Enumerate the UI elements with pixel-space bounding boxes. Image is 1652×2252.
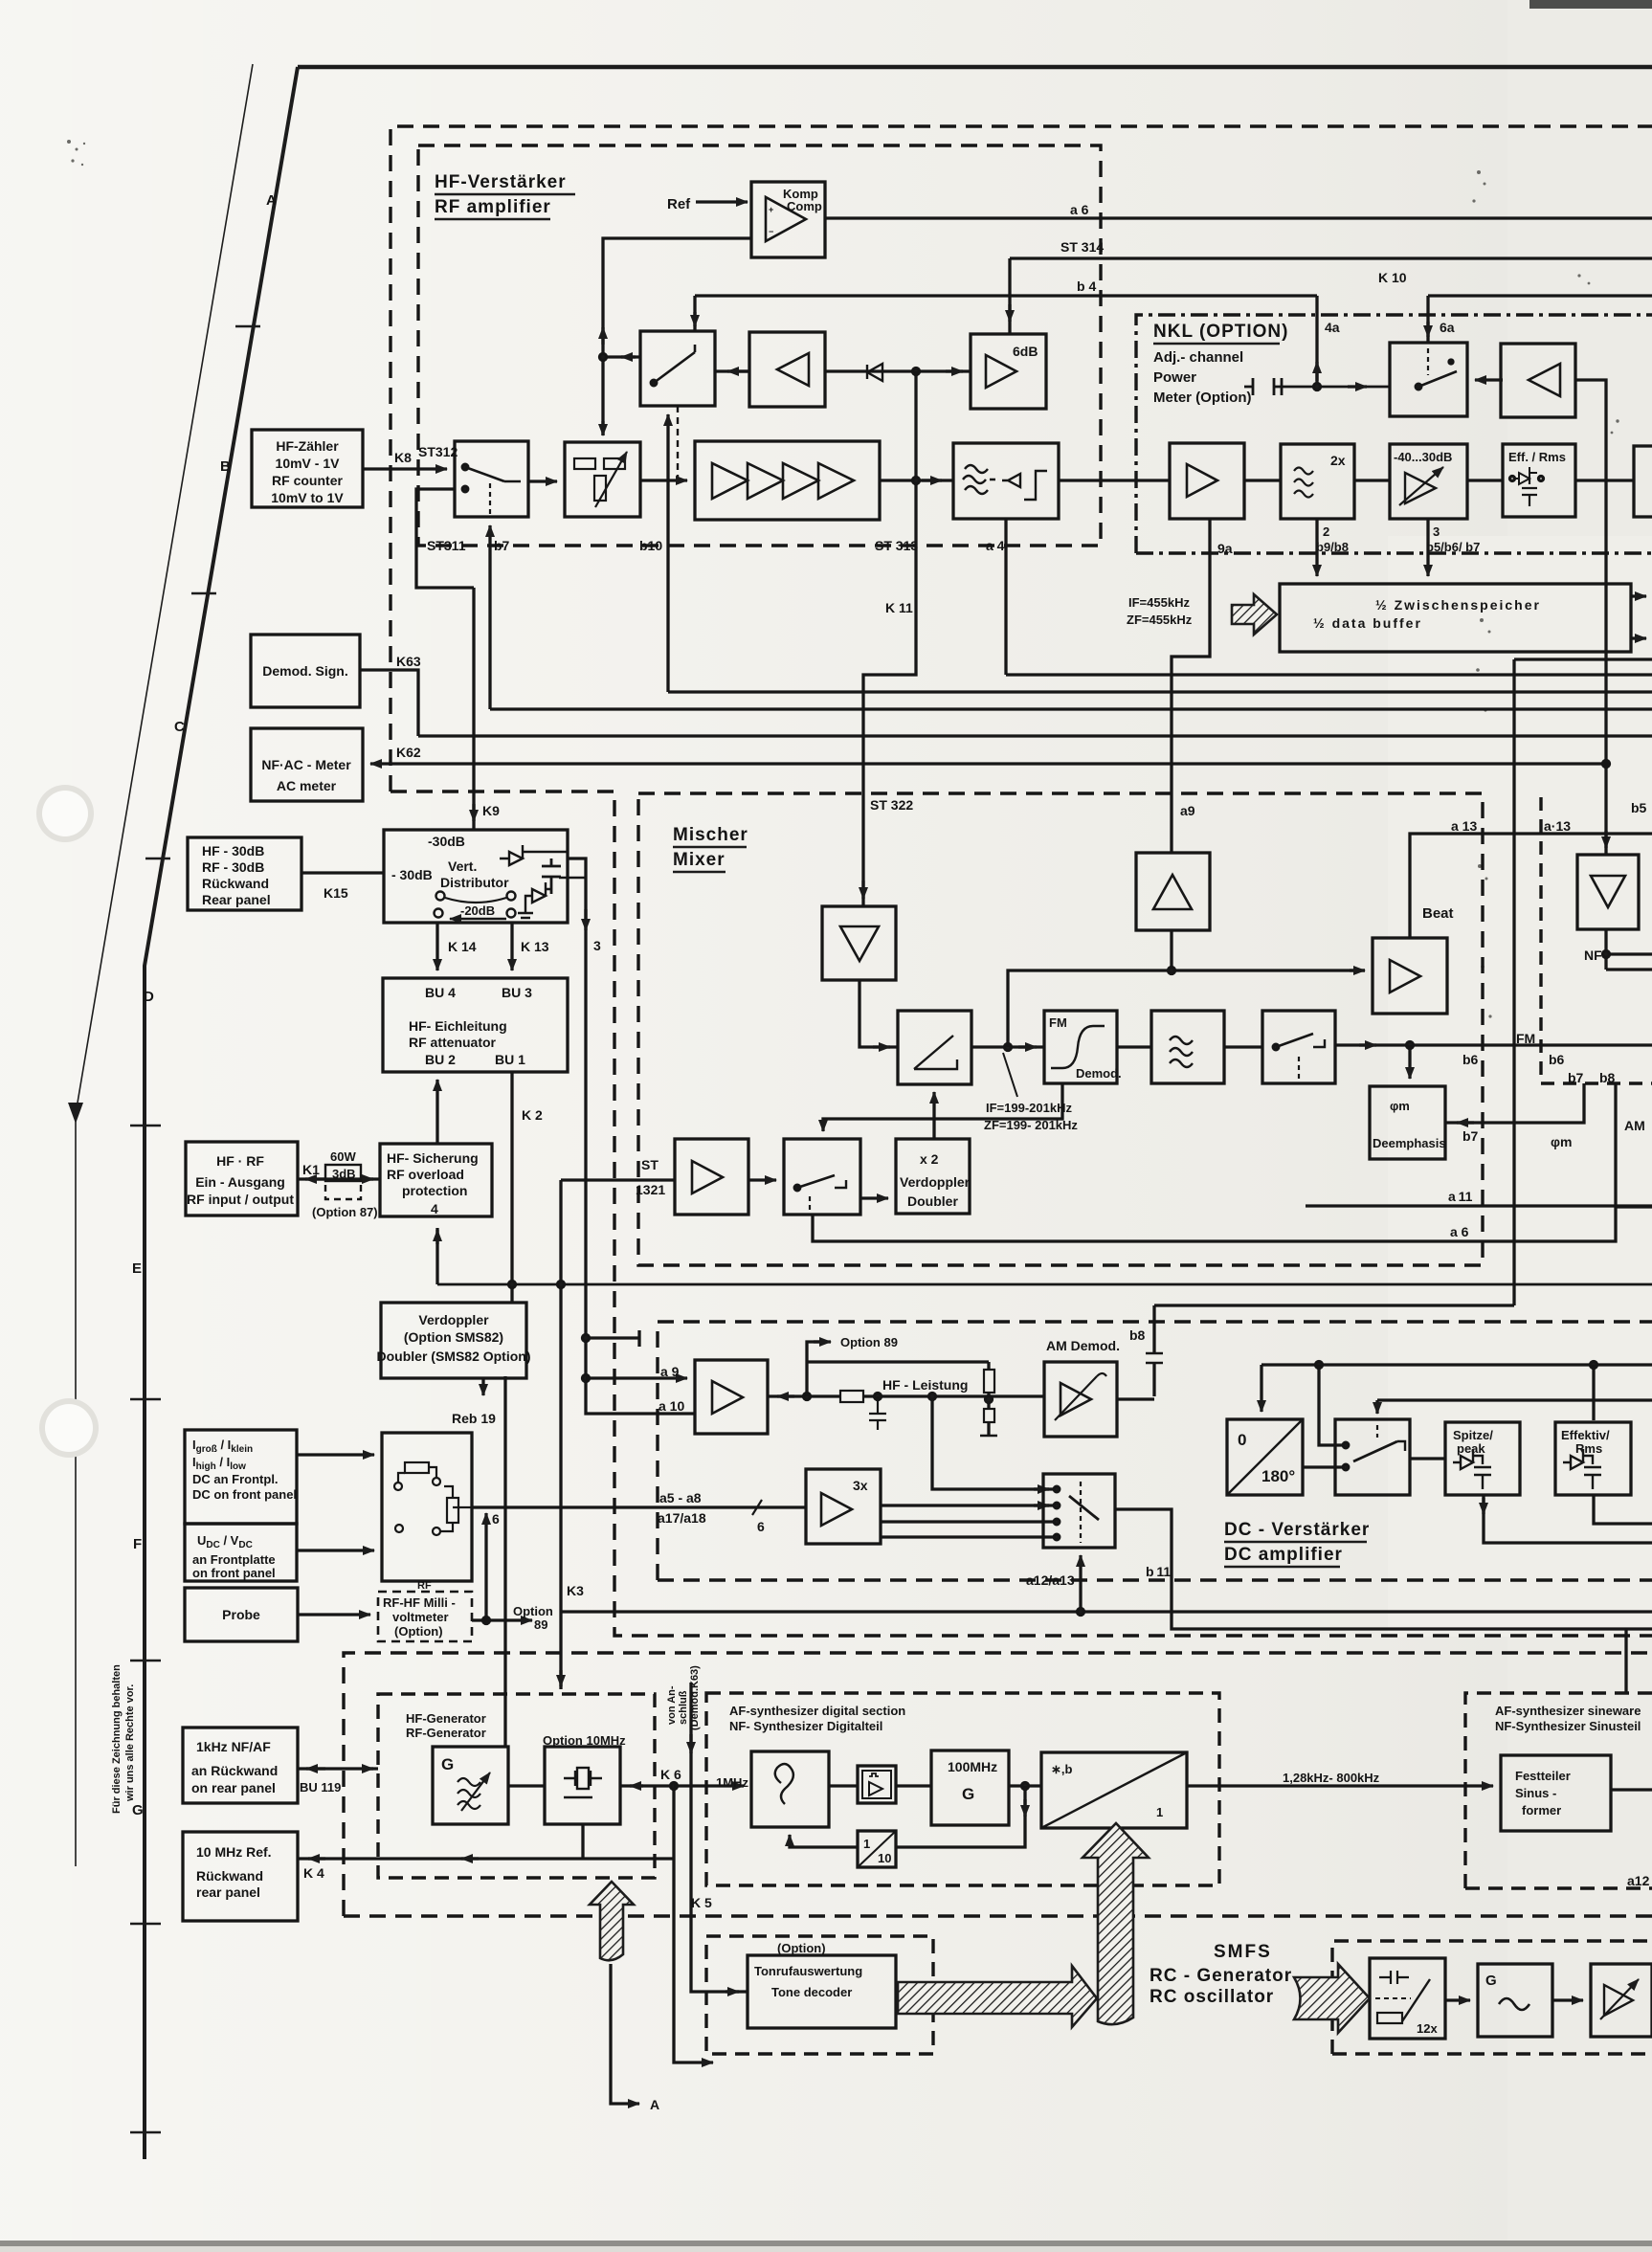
bus wire y723 bbox=[668, 690, 1652, 693]
buffer output arrows bbox=[1631, 596, 1646, 638]
wire right branch y689 bbox=[1514, 658, 1652, 660]
svg-text:Distributor: Distributor bbox=[440, 875, 509, 890]
arrow a12a13 up bbox=[1079, 1555, 1082, 1612]
bus wire y705 bbox=[1006, 673, 1652, 676]
svg-text:K1: K1 bbox=[302, 1162, 320, 1177]
junction divider input bbox=[1022, 1783, 1029, 1790]
text HF-Eichleitung bbox=[409, 1018, 507, 1050]
svg-text:former: former bbox=[1522, 1803, 1561, 1817]
arrow into FM box bbox=[1018, 1045, 1037, 1048]
svg-text:K8: K8 bbox=[394, 450, 412, 465]
title AF digital bbox=[729, 1704, 905, 1733]
3x amplifier box bbox=[806, 1469, 881, 1544]
svg-text:3: 3 bbox=[1433, 524, 1440, 539]
svg-text:RF counter: RF counter bbox=[272, 473, 343, 488]
wire deemphasis feed bbox=[1407, 1042, 1414, 1080]
svg-text:Spitze/: Spitze/ bbox=[1453, 1428, 1493, 1442]
svg-text:HF-Zähler: HF-Zähler bbox=[276, 438, 339, 454]
text 1kHz box bbox=[191, 1739, 278, 1795]
svg-text:Demod. Sign.: Demod. Sign. bbox=[262, 663, 347, 679]
DC-Verstaerker dashed box bbox=[658, 1322, 1652, 1580]
svg-text:(Option): (Option) bbox=[394, 1624, 443, 1639]
svg-text:a·13: a·13 bbox=[1544, 818, 1571, 834]
wire mischer divider to ramp bbox=[859, 980, 898, 1047]
switch box2 dashed drop bbox=[677, 406, 679, 480]
svg-text:BU 4: BU 4 bbox=[425, 985, 456, 1000]
junction HF-Leistung bbox=[929, 1394, 936, 1400]
wire a6 lower right bbox=[813, 1207, 1652, 1241]
svg-text:10: 10 bbox=[878, 1851, 891, 1865]
Effektiv rms detector box bbox=[1555, 1422, 1631, 1495]
arrow verdoppler Reb19 bbox=[481, 1378, 484, 1395]
svg-text:K 4: K 4 bbox=[303, 1865, 324, 1881]
svg-text:NF·AC - Meter: NF·AC - Meter bbox=[261, 757, 351, 772]
wire to beat amp bbox=[1008, 970, 1365, 1047]
wire a6 from comparator output bbox=[825, 216, 1652, 219]
UDC VDC box bbox=[185, 1524, 297, 1581]
wire b5 drop bbox=[1603, 761, 1610, 768]
svg-text:K 13: K 13 bbox=[521, 939, 549, 954]
svg-text:HF · RF: HF · RF bbox=[216, 1153, 264, 1169]
svg-text:DC on front panel: DC on front panel bbox=[192, 1487, 297, 1502]
svg-text:C: C bbox=[174, 719, 185, 735]
text HF-Generator bbox=[406, 1711, 486, 1740]
svg-text:on front panel: on front panel bbox=[192, 1566, 276, 1580]
svg-text:1kHz NF/AF: 1kHz NF/AF bbox=[196, 1739, 271, 1754]
wire K1 60W bbox=[298, 1177, 380, 1180]
page bottom edge shadow bbox=[0, 2241, 1652, 2246]
wire 9a jog from NKL amp bbox=[1172, 519, 1210, 853]
slash mark 6 bbox=[752, 1500, 762, 1515]
feedback switch box S2 bbox=[640, 331, 715, 406]
text Verdoppler SMS82 box bbox=[377, 1312, 531, 1364]
wire 4a drop to NKL bbox=[1315, 296, 1318, 387]
punch hole upper bbox=[36, 785, 94, 842]
svg-text:10mV - 1V: 10mV - 1V bbox=[276, 456, 341, 471]
svg-text:Rear panel: Rear panel bbox=[202, 892, 271, 907]
svg-text:ST: ST bbox=[641, 1157, 659, 1172]
HF-Leistung amp box a9 bbox=[695, 1360, 768, 1434]
svg-text:RF attenuator: RF attenuator bbox=[409, 1035, 497, 1050]
wire K14 bbox=[435, 923, 438, 970]
NKL amplifier box bbox=[1170, 443, 1244, 519]
arrow K9 into box bbox=[472, 804, 475, 821]
wire b4 K10 bbox=[695, 296, 1652, 331]
2x filter box bbox=[1281, 444, 1354, 519]
a b divider box bbox=[1041, 1752, 1187, 1828]
wire distributor out to 3 line bbox=[568, 858, 695, 1414]
svg-text:b9/b8: b9/b8 bbox=[1316, 540, 1349, 554]
svg-text:3x: 3x bbox=[853, 1478, 868, 1493]
junction a12a13 bbox=[1078, 1609, 1084, 1616]
svg-text:-40...30dB: -40...30dB bbox=[1394, 450, 1452, 464]
wire crystal to K6 bbox=[620, 1784, 674, 1787]
text Zwischenspeicher bbox=[1313, 597, 1541, 631]
arrow FM wire bbox=[1359, 1043, 1376, 1046]
Mischer input divider box bbox=[822, 906, 896, 980]
svg-text:DC an Frontpl.: DC an Frontpl. bbox=[192, 1472, 279, 1486]
junction ST313 on chain wire bbox=[913, 478, 920, 484]
svg-text:NKL (OPTION): NKL (OPTION) bbox=[1153, 322, 1288, 342]
junction K3 on 1342 bbox=[558, 1282, 565, 1288]
label FM demod IF bbox=[984, 1101, 1078, 1132]
wire switch to Spitze bbox=[1410, 1457, 1445, 1460]
svg-text:b7: b7 bbox=[494, 538, 510, 553]
row tick y897 bbox=[145, 858, 170, 860]
AM demodulator box bbox=[1044, 1362, 1117, 1437]
svg-text:0: 0 bbox=[1238, 1431, 1246, 1449]
scan speckles bbox=[67, 140, 1619, 1047]
text RF voltmeter box bbox=[383, 1580, 456, 1639]
arrowhead into 4 bbox=[435, 1230, 438, 1244]
svg-text:AF-synthesizer sineware: AF-synthesizer sineware bbox=[1495, 1704, 1641, 1718]
12x RC switch box bbox=[1370, 1958, 1445, 2039]
label IF 455kHz bbox=[1127, 595, 1193, 627]
svg-text:Rms: Rms bbox=[1575, 1441, 1602, 1456]
wire Probe to voltmeter bbox=[298, 1613, 370, 1616]
wire K5 vertical bbox=[691, 1683, 748, 1992]
wire attenuator to amp chain bbox=[640, 479, 687, 481]
svg-text:E: E bbox=[132, 1260, 142, 1277]
svg-text:60W: 60W bbox=[330, 1149, 356, 1164]
svg-text:FM: FM bbox=[1049, 1015, 1067, 1030]
wire K5 to tone decoder arrow bbox=[726, 1990, 739, 1993]
svg-text:HF-Generator: HF-Generator bbox=[406, 1711, 486, 1726]
svg-text:Beat: Beat bbox=[1422, 905, 1454, 922]
svg-text:a 4: a 4 bbox=[986, 538, 1005, 553]
wire K15 bbox=[301, 871, 384, 874]
svg-text:AM Demod.: AM Demod. bbox=[1046, 1338, 1120, 1353]
wire a5-a8 to 3x amp bbox=[472, 1505, 806, 1508]
svg-text:Vert.: Vert. bbox=[448, 858, 477, 874]
junction ramp out bbox=[1005, 1044, 1012, 1051]
arrow into 0-180 box bbox=[1260, 1365, 1262, 1412]
wire a9 branch bbox=[583, 1375, 688, 1382]
svg-text:-30dB: -30dB bbox=[428, 834, 465, 849]
svg-text:RF input / output: RF input / output bbox=[187, 1192, 294, 1207]
stub terminator on 3 line bbox=[583, 1330, 640, 1347]
option87 dashed bracket bbox=[325, 1185, 361, 1199]
svg-text:a17/a18: a17/a18 bbox=[658, 1510, 706, 1526]
svg-text:180°: 180° bbox=[1261, 1467, 1295, 1485]
svg-text:ST 314: ST 314 bbox=[1060, 239, 1104, 255]
svg-text:Ref: Ref bbox=[667, 196, 691, 212]
wire AM demod out bbox=[1117, 1397, 1154, 1400]
wire comparator minus input bbox=[603, 238, 751, 435]
svg-text:Festteiler: Festteiler bbox=[1515, 1769, 1571, 1783]
svg-text:DC amplifier: DC amplifier bbox=[1224, 1545, 1343, 1565]
svg-text:RF amplifier: RF amplifier bbox=[435, 197, 551, 217]
svg-text:2x: 2x bbox=[1330, 453, 1346, 468]
svg-text:AM: AM bbox=[1624, 1118, 1645, 1133]
wire 2x to -40dB bbox=[1354, 479, 1390, 481]
NKL reverse amplifier box bbox=[1501, 344, 1575, 417]
arrow into 6dB bbox=[1008, 304, 1011, 322]
svg-text:(Option SMS82): (Option SMS82) bbox=[404, 1329, 503, 1345]
wire 6a drop to NKL switch bbox=[1426, 296, 1429, 343]
mischer band switch box bbox=[784, 1139, 860, 1215]
IF filter limiter box bbox=[953, 443, 1059, 519]
text Vert Distributor bbox=[440, 858, 509, 890]
outer dashed region border (top section) bbox=[391, 126, 1652, 1636]
wire NKL cap line bbox=[1244, 378, 1390, 395]
text I gross box bbox=[192, 1438, 297, 1502]
label a5-a8 bbox=[658, 1490, 706, 1526]
arrow K5 down bbox=[689, 1734, 692, 1753]
FM demodulator box bbox=[1044, 1011, 1122, 1083]
svg-text:a12/a13: a12/a13 bbox=[1026, 1572, 1075, 1588]
text NF-AC-Meter box bbox=[261, 757, 351, 793]
arrow S2 output left bbox=[621, 355, 636, 358]
RF amplifier chain box bbox=[695, 441, 880, 520]
bus wire y798 K62 bbox=[370, 762, 1606, 765]
wire ramp to FM demod bbox=[971, 1045, 1044, 1048]
svg-text:K 2: K 2 bbox=[522, 1107, 543, 1123]
svg-text:A: A bbox=[650, 2097, 659, 2112]
svg-text:3: 3 bbox=[593, 938, 601, 953]
wire ST314 bbox=[1010, 256, 1652, 259]
svg-text:6a: 6a bbox=[1440, 320, 1455, 335]
svg-text:φm: φm bbox=[1551, 1134, 1572, 1149]
arrow K3 into HF-Gen box bbox=[559, 1670, 562, 1686]
svg-text:G: G bbox=[132, 1802, 144, 1818]
wire IF annotation pointer bbox=[1003, 1053, 1017, 1097]
svg-text:F: F bbox=[133, 1536, 142, 1552]
svg-text:½ Zwischenspeicher: ½ Zwischenspeicher bbox=[1375, 597, 1541, 613]
svg-text:D: D bbox=[144, 989, 154, 1005]
title AF sineware bbox=[1495, 1704, 1641, 1733]
AF-synthesizer sineware dashed box bbox=[1465, 1693, 1652, 1888]
NKL switch box bbox=[1390, 343, 1467, 416]
1kHz NF AF box bbox=[183, 1728, 298, 1803]
svg-text:HF- Eichleitung: HF- Eichleitung bbox=[409, 1018, 507, 1034]
svg-text:ST 313: ST 313 bbox=[875, 538, 918, 553]
10MHz crystal box bbox=[545, 1747, 620, 1824]
svg-text:SMFS: SMFS bbox=[1214, 1942, 1272, 1962]
drawing frame left slanted border bbox=[145, 67, 298, 2159]
svg-text:Power: Power bbox=[1153, 369, 1196, 386]
wire Effektiv down out bbox=[1594, 1496, 1652, 1524]
wire ST313 junction drop bbox=[863, 371, 916, 906]
svg-text:RF-Generator: RF-Generator bbox=[406, 1726, 486, 1740]
wire doubler amp drop bbox=[1170, 930, 1172, 970]
long vertical 1582 bbox=[1512, 659, 1515, 1305]
HF-Verstaerker dashed box bbox=[418, 145, 1101, 546]
arrow into HF-Sicherung 4 bbox=[435, 1228, 438, 1284]
0-180 phase box bbox=[1227, 1419, 1303, 1495]
bus wire y769 bbox=[418, 734, 1652, 737]
wire b10 riser into S2 bbox=[666, 414, 669, 692]
svg-text:IF=455kHz: IF=455kHz bbox=[1128, 595, 1190, 610]
arrows selector inputs bbox=[1034, 1489, 1049, 1505]
wire filter to NKL amp bbox=[1059, 479, 1170, 481]
svg-text:b 11: b 11 bbox=[1146, 1564, 1171, 1579]
svg-text:RF-HF Milli -: RF-HF Milli - bbox=[383, 1595, 456, 1610]
svg-text:1,28kHz- 800kHz: 1,28kHz- 800kHz bbox=[1283, 1771, 1380, 1785]
title SMFS bbox=[1150, 1942, 1292, 2007]
svg-text:3dB: 3dB bbox=[332, 1167, 356, 1181]
svg-text:b7: b7 bbox=[1462, 1128, 1479, 1144]
wire K63 demod sign bbox=[360, 670, 418, 736]
wire NF stubs right bbox=[1606, 929, 1652, 970]
svg-text:ST312: ST312 bbox=[418, 444, 458, 459]
Probe box bbox=[185, 1588, 298, 1641]
AF-synthesizer digital dashed box bbox=[706, 1693, 1219, 1885]
svg-text:a5 - a8: a5 - a8 bbox=[659, 1490, 702, 1505]
svg-text:a 6: a 6 bbox=[1070, 202, 1089, 217]
svg-text:RF overload: RF overload bbox=[387, 1167, 464, 1182]
svg-text:G: G bbox=[441, 1755, 454, 1773]
scan background tint right strip bbox=[1507, 0, 1652, 2252]
arrow up on feedback line bbox=[601, 327, 604, 345]
svg-text:100MHz: 100MHz bbox=[948, 1759, 997, 1774]
svg-text:6: 6 bbox=[492, 1511, 500, 1527]
label 3 b5b6b7 bbox=[1426, 524, 1480, 554]
text 10MHz box bbox=[196, 1844, 272, 1900]
wire b8 cap drop bbox=[1146, 1305, 1163, 1396]
RF attenuator adjust box bbox=[565, 442, 640, 517]
svg-text:a 13: a 13 bbox=[1451, 818, 1477, 834]
6dB amplifier box bbox=[971, 334, 1046, 409]
scan dark bar top right bbox=[1529, 0, 1652, 9]
svg-text:a 6: a 6 bbox=[1450, 1224, 1469, 1239]
svg-text:Meter (Option): Meter (Option) bbox=[1153, 390, 1252, 406]
paper edge thin line bbox=[76, 64, 253, 1866]
RF switch box S1 bbox=[455, 441, 528, 517]
wire S2 output to feedback line bbox=[603, 355, 640, 358]
svg-text:4a: 4a bbox=[1325, 320, 1340, 335]
HF-Sicherung overload box bbox=[380, 1144, 492, 1216]
bus wire y741 bbox=[490, 707, 1652, 710]
svg-text:NF-Synthesizer Sinusteil: NF-Synthesizer Sinusteil bbox=[1495, 1719, 1641, 1733]
svg-text:Comp: Comp bbox=[787, 199, 822, 213]
label 2 b9b8 bbox=[1316, 524, 1349, 554]
wire voltmeter to riser bbox=[472, 1618, 486, 1621]
svg-text:∗,b: ∗,b bbox=[1051, 1762, 1073, 1776]
HF generator G box bbox=[433, 1747, 508, 1824]
svg-text:Adj.- channel: Adj.- channel bbox=[1153, 349, 1243, 366]
wire K8 counter to switch bbox=[363, 467, 447, 470]
punch hole lower bbox=[39, 1398, 99, 1458]
svg-text:Für diese Zeichnung behalten: Für diese Zeichnung behalten bbox=[111, 1664, 123, 1814]
svg-text:Mischer: Mischer bbox=[673, 825, 748, 845]
row tick y1735 bbox=[130, 1660, 161, 1662]
svg-text:a9: a9 bbox=[1180, 803, 1195, 818]
bottom outer dashed region border bbox=[344, 1653, 1652, 1916]
svg-text:1321: 1321 bbox=[636, 1182, 665, 1197]
svg-text:K 10: K 10 bbox=[1378, 270, 1407, 285]
pulse shaper box bbox=[858, 1766, 896, 1803]
ST321 amplifier box bbox=[675, 1139, 748, 1215]
svg-text:Doubler (SMS82 Option): Doubler (SMS82 Option) bbox=[377, 1349, 531, 1364]
svg-text:Eff. / Rms: Eff. / Rms bbox=[1508, 450, 1566, 464]
text BU2 BU1 bbox=[425, 1052, 525, 1067]
wire 12x to G bbox=[1445, 1998, 1470, 2001]
Vert Distributor box bbox=[384, 830, 586, 923]
I gross I klein box bbox=[185, 1430, 297, 1524]
svg-text:10 MHz Ref.: 10 MHz Ref. bbox=[196, 1844, 272, 1860]
wire FM out to edge bbox=[1335, 1043, 1652, 1046]
wire a9 amp right resistor network bbox=[768, 1391, 1044, 1430]
svg-text:b8: b8 bbox=[1129, 1327, 1146, 1343]
wire NKL amp to 2x bbox=[1244, 479, 1281, 481]
svg-text:Rückwand: Rückwand bbox=[196, 1868, 263, 1884]
arrow into crystal bbox=[630, 1784, 643, 1787]
svg-text:peak: peak bbox=[1457, 1441, 1485, 1456]
HF-30dB rear panel box bbox=[188, 837, 301, 910]
DC selector switch box bbox=[1043, 1474, 1115, 1548]
reverse amplifier box bbox=[749, 332, 825, 407]
wire Spitze down out bbox=[1484, 1496, 1652, 1543]
wire ST321 amp to switch bbox=[748, 1178, 776, 1181]
1/10 divider box bbox=[858, 1831, 896, 1867]
svg-text:1MHz: 1MHz bbox=[716, 1775, 748, 1790]
wire 3 b5b6b7 drop bbox=[1426, 519, 1429, 576]
10MHz Ref box bbox=[183, 1832, 298, 1921]
label vonAnschluss rotated bbox=[666, 1665, 701, 1730]
Mischer dashed box bbox=[638, 793, 1483, 1265]
svg-text:Effektiv/: Effektiv/ bbox=[1561, 1428, 1610, 1442]
svg-text:AF-synthesizer digital section: AF-synthesizer digital section bbox=[729, 1704, 905, 1718]
Zwischenspeicher data buffer box bbox=[1280, 584, 1631, 652]
svg-text:BU 1: BU 1 bbox=[495, 1052, 525, 1067]
wire divider to Festteiler bbox=[1187, 1784, 1493, 1787]
label ST 1321 bbox=[636, 1157, 665, 1197]
wire 1-10 feedback to phase bbox=[790, 1835, 858, 1847]
wire switch S1 to attenuator bbox=[528, 479, 557, 482]
arrow into switch top bbox=[1375, 1400, 1378, 1414]
svg-text:1: 1 bbox=[863, 1837, 870, 1851]
wire 6dB riser bbox=[1008, 258, 1011, 333]
svg-text:12x: 12x bbox=[1417, 2021, 1438, 2036]
svg-text:Ein - Ausgang: Ein - Ausgang bbox=[195, 1174, 285, 1190]
wire DC feed bus y1463 bbox=[1377, 1398, 1652, 1401]
svg-text:a 9: a 9 bbox=[660, 1364, 680, 1379]
svg-text:BU 2: BU 2 bbox=[425, 1052, 456, 1067]
svg-text:2: 2 bbox=[1323, 524, 1329, 539]
wire HF-Leistung junction drop bbox=[932, 1396, 1057, 1489]
svg-text:Option 89: Option 89 bbox=[840, 1335, 898, 1349]
Komp comparator op-amp box U1 bbox=[751, 182, 825, 257]
text HF-RF box bbox=[187, 1153, 294, 1207]
svg-text:−: − bbox=[769, 227, 773, 236]
arrow 4a up bbox=[1315, 362, 1318, 381]
Tonrufauswertung tone decoder box bbox=[748, 1955, 896, 2028]
svg-text:φm: φm bbox=[1390, 1099, 1410, 1113]
svg-text:½ data buffer: ½ data buffer bbox=[1313, 615, 1422, 631]
svg-text:(Demod.K63): (Demod.K63) bbox=[689, 1665, 701, 1730]
text HF-Zaehler box bbox=[271, 438, 344, 505]
svg-text:6: 6 bbox=[757, 1519, 765, 1534]
arrow into attenuator top bbox=[601, 421, 604, 435]
title Mischer bbox=[673, 825, 748, 872]
wire Effektiv top feed bbox=[1592, 1365, 1595, 1420]
svg-text:a 10: a 10 bbox=[659, 1398, 684, 1414]
svg-text:IF=199-201kHz: IF=199-201kHz bbox=[986, 1101, 1072, 1115]
x2 Verdoppler doubler box bbox=[896, 1139, 970, 1214]
svg-text:- 30dB: - 30dB bbox=[391, 867, 433, 882]
wire NKL switch to reverse amp bbox=[1475, 378, 1503, 381]
svg-text:protection: protection bbox=[402, 1183, 467, 1198]
wire Ref to comparator bbox=[696, 200, 748, 203]
wire -40dB to EffRms bbox=[1467, 479, 1503, 481]
svg-text:K15: K15 bbox=[324, 885, 348, 901]
Festteiler Sinus former box bbox=[1501, 1755, 1611, 1831]
row tick y341 bbox=[235, 325, 260, 328]
SMFS RC dashed box bbox=[1332, 1941, 1652, 2054]
svg-text:b 4: b 4 bbox=[1077, 279, 1096, 294]
wire upper resistor branch bbox=[807, 1362, 997, 1436]
